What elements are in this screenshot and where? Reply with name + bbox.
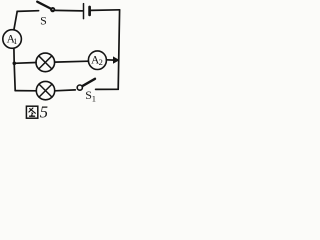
svg-text:5: 5 — [40, 103, 48, 122]
svg-text:1: 1 — [13, 37, 17, 46]
svg-text:2: 2 — [99, 57, 103, 67]
svg-text:1: 1 — [92, 93, 96, 103]
svg-text:S: S — [40, 14, 47, 28]
